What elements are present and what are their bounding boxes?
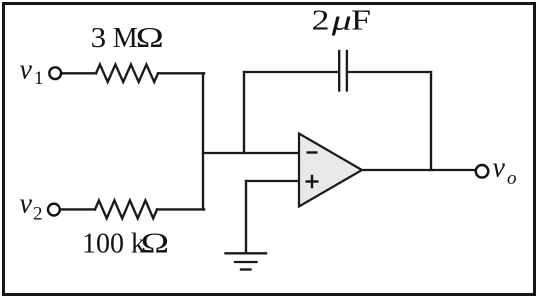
svg-text:v: v <box>493 153 506 184</box>
svg-text:v: v <box>20 188 33 219</box>
svg-text:Ω: Ω <box>136 23 164 54</box>
svg-text:1: 1 <box>34 68 44 89</box>
svg-text:Ω: Ω <box>141 229 170 260</box>
svg-text:μ: μ <box>330 5 351 36</box>
svg-text:M: M <box>113 23 138 54</box>
svg-text:100 k: 100 k <box>82 229 145 260</box>
svg-text:o: o <box>507 168 517 189</box>
svg-text:v: v <box>20 54 33 85</box>
svg-text:2: 2 <box>33 204 43 225</box>
svg-text:F: F <box>351 5 371 36</box>
svg-text:2: 2 <box>312 5 330 36</box>
svg-text:3: 3 <box>91 23 107 54</box>
